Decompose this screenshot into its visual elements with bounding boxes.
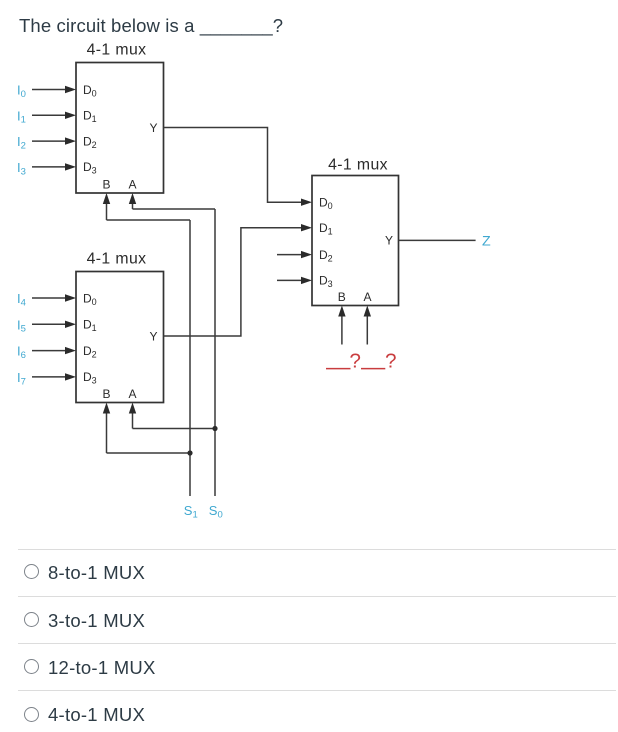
svg-text:I2: I2 xyxy=(17,134,26,151)
svg-text:B: B xyxy=(102,178,110,192)
wire input I1 to U1 D1 xyxy=(32,114,68,116)
svg-text:D3: D3 xyxy=(83,160,97,176)
wire input I6 to U2 D2 xyxy=(32,350,68,352)
svg-text:I6: I6 xyxy=(17,344,26,361)
wire U3 Y to Z xyxy=(399,239,476,241)
wire input I0 to U1 D0 xyxy=(32,89,68,91)
svg-text:Y: Y xyxy=(149,329,157,343)
svg-text:I7: I7 xyxy=(17,370,26,387)
svg-text:D3: D3 xyxy=(83,370,97,386)
junction dot S1 to U2 B xyxy=(187,450,192,455)
svg-text:I0: I0 xyxy=(17,83,26,100)
svg-text:S1: S1 xyxy=(184,503,198,520)
arrowhead U2 B xyxy=(103,403,110,414)
wire U3 B select stub xyxy=(341,314,343,345)
wire input I5 to U2 D1 xyxy=(32,323,68,325)
svg-text:Y: Y xyxy=(149,121,157,135)
arrowhead U3 B xyxy=(338,306,345,317)
arrowhead U1 B xyxy=(103,193,110,204)
wire select line S1 vertical xyxy=(189,220,191,496)
arrowhead I6 xyxy=(65,347,76,354)
svg-text:I5: I5 xyxy=(17,317,26,334)
wire input I2 to U1 D2 xyxy=(32,140,68,142)
svg-text:Y: Y xyxy=(385,234,393,248)
svg-text:D2: D2 xyxy=(319,248,333,264)
wire input I3 to U1 D3 xyxy=(32,166,68,168)
junction dot S0 to U2 A xyxy=(212,426,217,431)
svg-text:D0: D0 xyxy=(83,291,97,307)
mux U2 box xyxy=(76,272,164,403)
arrowhead I5 xyxy=(65,321,76,328)
arrowhead U3 D3 xyxy=(301,277,312,284)
svg-text:D0: D0 xyxy=(83,83,97,99)
svg-text:A: A xyxy=(128,387,136,401)
svg-text:D2: D2 xyxy=(83,134,97,150)
arrowhead I4 xyxy=(65,294,76,301)
label unknown select B (red) xyxy=(326,350,361,373)
svg-text:?: ? xyxy=(385,350,396,373)
svg-text:4-1 mux: 4-1 mux xyxy=(328,157,388,174)
arrowhead U3 D1 xyxy=(301,224,312,231)
arrowhead I1 xyxy=(65,112,76,119)
arrowhead I3 xyxy=(65,163,76,170)
svg-text:D1: D1 xyxy=(83,318,97,334)
wire stub U3 D2 xyxy=(277,254,303,256)
svg-text:4-1 mux: 4-1 mux xyxy=(87,42,147,59)
wire stub U3 D3 xyxy=(277,279,303,281)
svg-text:D3: D3 xyxy=(319,274,333,290)
svg-text:I4: I4 xyxy=(17,291,26,308)
svg-text:B: B xyxy=(102,387,110,401)
svg-text:D1: D1 xyxy=(83,109,97,125)
mux U3 box xyxy=(312,176,399,306)
svg-text:A: A xyxy=(363,290,371,304)
wire input I4 to U2 D0 xyxy=(32,297,68,299)
wire U1 B select xyxy=(107,202,191,221)
answer option 4 xyxy=(18,690,616,691)
arrowhead U3 D2 xyxy=(301,251,312,258)
wire U2 Y to U3 D1 xyxy=(164,228,304,336)
wire U1 A select xyxy=(133,202,216,210)
svg-text:I3: I3 xyxy=(17,160,26,177)
svg-text:A: A xyxy=(128,178,136,192)
answer option 2 xyxy=(18,596,616,597)
svg-text:B: B xyxy=(338,290,346,304)
wire U2 A select xyxy=(133,411,216,429)
arrowhead U2 A xyxy=(129,403,136,414)
arrowhead I2 xyxy=(65,137,76,144)
wire select line S0 vertical xyxy=(214,209,216,496)
svg-text:D0: D0 xyxy=(319,196,333,212)
svg-text:D1: D1 xyxy=(319,221,333,237)
mux U1 box xyxy=(76,63,164,194)
answer option 1 xyxy=(18,549,616,550)
arrowhead U3 A xyxy=(364,306,371,317)
svg-text:?: ? xyxy=(349,350,360,373)
wire input I7 to U2 D3 xyxy=(32,376,68,378)
wire U2 B select xyxy=(107,411,191,453)
label unknown select A (red) xyxy=(361,350,397,373)
wire U3 A select stub xyxy=(366,314,368,345)
svg-text:I1: I1 xyxy=(17,108,26,125)
wire U1 Y to U3 D0 xyxy=(164,128,304,203)
arrowhead U3 D0 xyxy=(301,199,312,206)
arrowhead I7 xyxy=(65,373,76,380)
svg-text:S0: S0 xyxy=(209,503,223,520)
svg-text:Z: Z xyxy=(482,234,491,250)
svg-text:D2: D2 xyxy=(83,344,97,360)
answer option 3 xyxy=(18,643,616,644)
arrowhead I0 xyxy=(65,86,76,93)
svg-text:4-1 mux: 4-1 mux xyxy=(87,251,147,268)
arrowhead U1 A xyxy=(129,193,136,204)
